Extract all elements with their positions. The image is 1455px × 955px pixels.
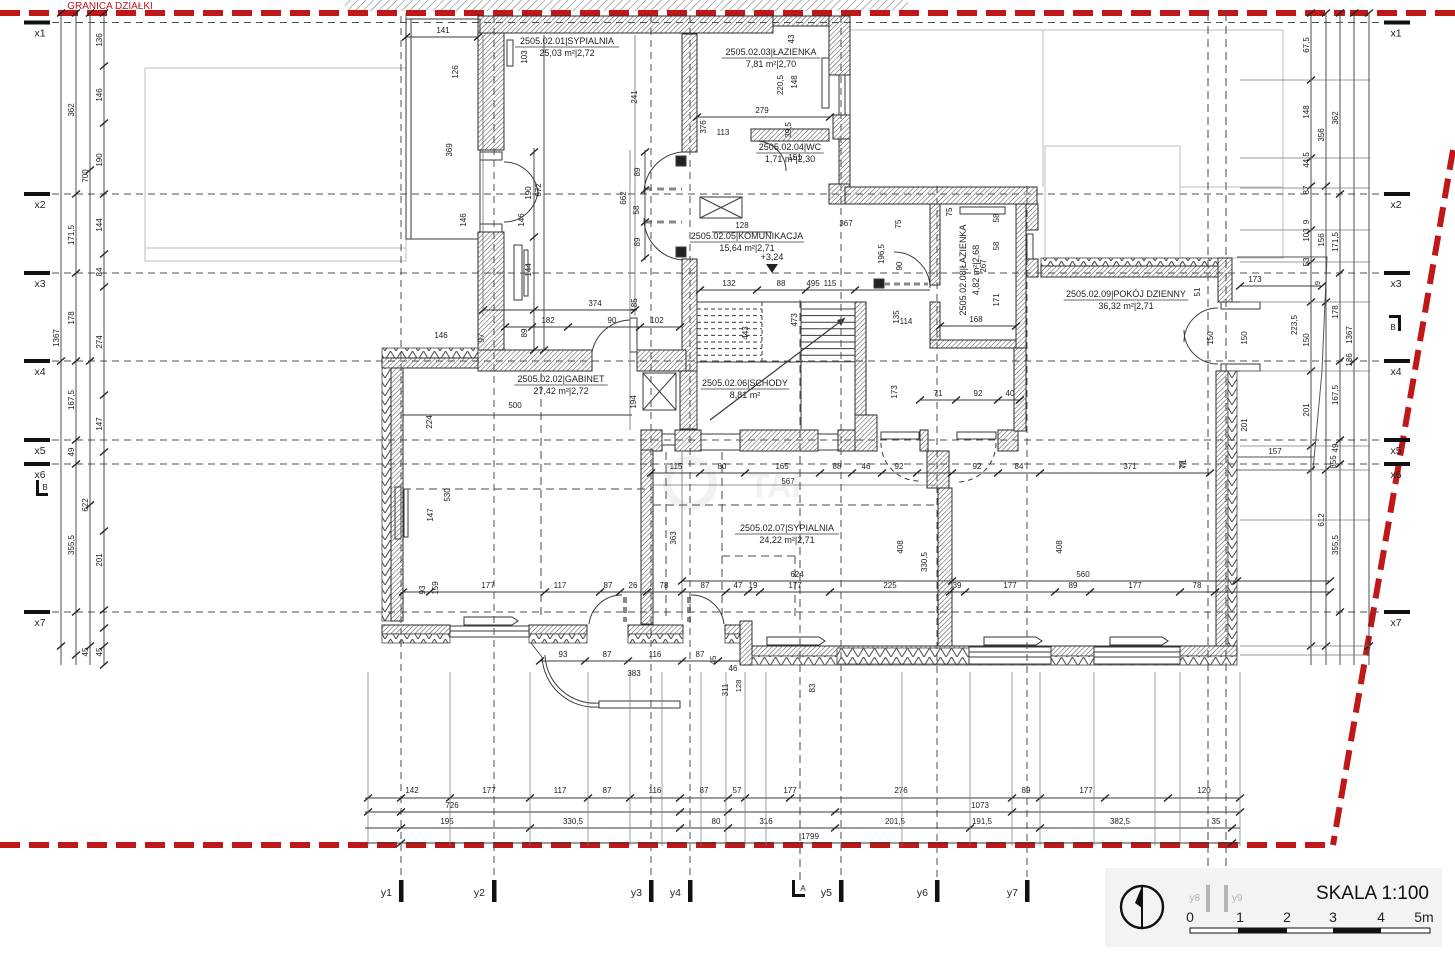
svg-text:49: 49: [1331, 443, 1340, 452]
svg-text:40: 40: [1006, 389, 1015, 398]
svg-text:19: 19: [749, 581, 758, 590]
svg-text:177: 177: [482, 786, 496, 795]
svg-text:201: 201: [1302, 403, 1311, 417]
svg-text:24,22 m²|2,71: 24,22 m²|2,71: [759, 535, 814, 545]
svg-text:x4: x4: [34, 366, 45, 378]
svg-text:4: 4: [1377, 909, 1385, 925]
north arrow: [1121, 886, 1163, 928]
neighbour building hatch above boundary: [345, 0, 908, 11]
svg-text:x3: x3: [34, 278, 45, 290]
svg-text:58: 58: [632, 205, 641, 214]
svg-text:330,5: 330,5: [563, 817, 584, 826]
svg-text:148: 148: [790, 75, 799, 89]
window in bottom wall west: [450, 625, 529, 627]
svg-text:146: 146: [517, 213, 526, 227]
windows in bottom wall east: [969, 647, 1051, 664]
svg-text:672: 672: [534, 183, 543, 197]
faint watermark: [667, 460, 713, 506]
svg-text:116: 116: [649, 786, 662, 795]
svg-text:726: 726: [445, 801, 459, 810]
svg-text:113: 113: [717, 128, 730, 137]
svg-text:274: 274: [95, 335, 104, 349]
svg-text:363: 363: [669, 531, 678, 545]
svg-text:58: 58: [992, 213, 1001, 222]
svg-text:178: 178: [67, 311, 76, 325]
svg-text:136: 136: [95, 33, 104, 47]
svg-text:x6: x6: [1390, 469, 1401, 481]
top exterior wall band: [478, 16, 773, 33]
svg-text:376: 376: [699, 120, 708, 134]
svg-text:y3: y3: [631, 887, 642, 899]
svg-text:115: 115: [670, 462, 683, 471]
svg-text:77: 77: [1178, 460, 1187, 469]
svg-text:x5: x5: [34, 445, 45, 457]
dims row y=473: [651, 472, 1210, 474]
wall between komunikacja and bathroom 03: [682, 34, 697, 152]
svg-text:5m: 5m: [1414, 909, 1433, 925]
svg-text:159: 159: [431, 581, 440, 595]
svg-text:89: 89: [1022, 786, 1031, 795]
svg-text:87: 87: [1302, 185, 1311, 194]
bathroom 08 south wall: [930, 340, 1019, 348]
svg-text:177: 177: [788, 581, 802, 590]
dims porch row: [540, 660, 740, 662]
svg-text:88: 88: [777, 279, 786, 288]
svg-text:2505.02.07|SYPIALNIA: 2505.02.07|SYPIALNIA: [740, 523, 834, 533]
entrance porch arc and step: [542, 657, 599, 707]
svg-text:224: 224: [425, 415, 434, 429]
svg-text:2: 2: [1283, 909, 1291, 925]
svg-text:141: 141: [436, 26, 450, 35]
svg-text:80: 80: [718, 462, 727, 471]
svg-text:75: 75: [894, 219, 903, 228]
section marker B right: [1398, 315, 1401, 331]
svg-text:241: 241: [630, 90, 639, 104]
balcony door opening leaves: [480, 152, 502, 160]
svg-text:4,82 m²|2,68: 4,82 m²|2,68: [971, 245, 981, 295]
svg-text:1367: 1367: [1345, 326, 1354, 344]
svg-text:408: 408: [896, 540, 905, 554]
svg-text:128: 128: [734, 680, 743, 693]
svg-text:87: 87: [604, 581, 613, 590]
south band below stairs with door openings: [641, 430, 662, 451]
svg-text:383: 383: [627, 669, 641, 678]
svg-text:46: 46: [862, 462, 871, 471]
svg-text:276: 276: [894, 786, 908, 795]
terrace sliding door leaves: [1221, 302, 1260, 309]
bottom exterior wall west part (hatch + insulation strips): [382, 625, 450, 634]
svg-text:190: 190: [95, 153, 104, 167]
svg-text:500: 500: [508, 401, 522, 410]
svg-text:201: 201: [1240, 418, 1249, 432]
svg-text:2505.02.02|GABINET: 2505.02.02|GABINET: [518, 374, 605, 384]
svg-text:90: 90: [608, 316, 617, 325]
dims terrace right: [1240, 285, 1322, 287]
svg-text:89: 89: [520, 328, 529, 337]
svg-text:148: 148: [1302, 105, 1311, 119]
dims bathroom 03: [697, 116, 830, 118]
bottom dimension rows: [365, 797, 1240, 799]
svg-text:93: 93: [418, 585, 427, 594]
right side extension lines: [1240, 79, 1370, 81]
svg-text:45: 45: [709, 655, 718, 664]
y8 y9 gray labels: [1206, 885, 1210, 912]
svg-text:171,5: 171,5: [67, 224, 76, 245]
svg-text:223,5: 223,5: [1290, 314, 1299, 335]
svg-text:1,71 m²|2,30: 1,71 m²|2,30: [765, 154, 815, 164]
svg-text:87: 87: [603, 650, 612, 659]
red property boundary GRANICA DZIALKI: [0, 10, 1345, 16]
window in east wall: [822, 58, 829, 108]
svg-text:190: 190: [524, 186, 533, 200]
svg-text:622: 622: [81, 498, 90, 512]
bedroom07 / living room dividing wall: [938, 488, 952, 646]
bay north wall band: [1041, 258, 1225, 266]
svg-text:1799: 1799: [801, 832, 819, 841]
svg-text:x6: x6: [34, 469, 45, 481]
svg-text:157: 157: [1268, 447, 1282, 456]
chimney shaft box: [700, 197, 742, 218]
svg-text:150: 150: [1206, 331, 1215, 345]
svg-text:177: 177: [1128, 581, 1142, 590]
svg-text:473: 473: [790, 313, 799, 327]
wall stub below doors: [927, 451, 949, 488]
wall below pocket doors: [682, 259, 697, 371]
svg-text:356: 356: [1317, 128, 1326, 142]
svg-text:7,81 m²|2,70: 7,81 m²|2,70: [746, 59, 796, 69]
svg-text:27,42 m²|2,72: 27,42 m²|2,72: [533, 386, 588, 396]
svg-text:156: 156: [1317, 233, 1326, 247]
svg-text:90: 90: [895, 261, 904, 270]
svg-text:196,5: 196,5: [877, 243, 886, 264]
svg-text:92: 92: [974, 389, 983, 398]
svg-text:167,5: 167,5: [1331, 384, 1340, 405]
dims row y=400: [920, 399, 1020, 401]
bathroom 08 west wall: [930, 204, 940, 285]
grid axis lines: [28, 22, 1402, 24]
svg-text:408: 408: [1055, 540, 1064, 554]
svg-text:43: 43: [787, 34, 796, 43]
svg-text:1073: 1073: [971, 801, 989, 810]
svg-text:355,5: 355,5: [67, 534, 76, 555]
svg-text:173: 173: [1248, 275, 1262, 284]
svg-text:x1: x1: [34, 28, 45, 40]
west wall of bedroom wing upper: [478, 33, 504, 150]
svg-text:B: B: [42, 483, 47, 492]
svg-text:25,03 m²|2,72: 25,03 m²|2,72: [539, 48, 594, 58]
svg-text:2505.02.04|WC: 2505.02.04|WC: [759, 142, 822, 152]
low window with cross pattern: [837, 648, 969, 664]
chimney box gabinet: [643, 373, 676, 410]
svg-text:9: 9: [1313, 281, 1322, 285]
dims stairs area: [700, 289, 930, 291]
svg-text:136: 136: [1345, 353, 1354, 367]
right dimension chains: [1310, 13, 1312, 665]
scale panel background: [1105, 868, 1442, 947]
svg-text:201: 201: [95, 553, 104, 567]
svg-text:45: 45: [81, 647, 90, 656]
svg-text:132: 132: [722, 279, 736, 288]
svg-text:165: 165: [775, 462, 789, 471]
svg-text:44,5: 44,5: [1302, 152, 1311, 168]
svg-text:y8: y8: [1189, 893, 1200, 904]
svg-text:367: 367: [839, 219, 853, 228]
svg-text:89: 89: [1069, 581, 1078, 590]
svg-text:92: 92: [895, 462, 904, 471]
svg-text:194: 194: [629, 395, 638, 409]
svg-text:567: 567: [781, 477, 795, 486]
svg-text:114: 114: [900, 317, 913, 326]
svg-text:369: 369: [445, 143, 454, 157]
svg-text:201,5: 201,5: [885, 817, 906, 826]
svg-text:47: 47: [734, 581, 743, 590]
svg-text:182: 182: [541, 316, 555, 325]
WC south wall band: [751, 129, 829, 141]
svg-text:78: 78: [660, 581, 669, 590]
svg-text:115: 115: [824, 279, 837, 288]
svg-text:75: 75: [945, 207, 954, 216]
svg-text:146: 146: [459, 213, 468, 227]
svg-text:9: 9: [1302, 219, 1311, 224]
svg-text:36,32 m²|2,71: 36,32 m²|2,71: [1098, 301, 1153, 311]
svg-text:y1: y1: [381, 887, 392, 899]
svg-text:2505.02.01|SYPIALNIA: 2505.02.01|SYPIALNIA: [520, 36, 614, 46]
svg-text:87: 87: [701, 581, 710, 590]
terrace outline right: [1237, 257, 1327, 470]
pocket doors in komunikacja: [676, 156, 686, 166]
svg-text:87: 87: [603, 786, 612, 795]
door to bedroom 07 (left): [881, 432, 919, 439]
svg-text:x2: x2: [1390, 199, 1401, 211]
svg-text:530: 530: [443, 488, 452, 502]
svg-text:1367: 1367: [52, 329, 61, 347]
svg-text:SKALA 1:100: SKALA 1:100: [1316, 883, 1429, 904]
svg-text:150: 150: [1240, 331, 1249, 345]
svg-text:177: 177: [1003, 581, 1017, 590]
svg-text:x5: x5: [1390, 445, 1401, 457]
svg-text:128: 128: [735, 221, 749, 230]
svg-text:67,5: 67,5: [1302, 37, 1311, 53]
east exterior wall lower: [1216, 371, 1228, 646]
svg-text:117: 117: [554, 786, 567, 795]
section line A: [799, 300, 801, 880]
north wall band of living area: [845, 187, 1037, 204]
bottom extension lines: [367, 672, 369, 846]
svg-text:117: 117: [554, 581, 567, 590]
bottom exterior wall east part: [752, 646, 1237, 656]
svg-text:89: 89: [633, 167, 642, 176]
svg-text:39,5: 39,5: [784, 122, 793, 138]
svg-text:330,5: 330,5: [920, 551, 929, 572]
svg-text:495: 495: [806, 279, 820, 288]
svg-text:173: 173: [890, 385, 899, 399]
door to living room (right): [957, 432, 996, 439]
svg-text:92: 92: [973, 462, 982, 471]
svg-text:177: 177: [481, 581, 495, 590]
svg-text:46: 46: [729, 664, 738, 673]
gabinet east wall upper: [680, 371, 697, 429]
svg-text:311: 311: [721, 683, 730, 696]
svg-text:+3,24: +3,24: [761, 252, 784, 262]
svg-text:A: A: [800, 884, 806, 893]
svg-text:167,5: 167,5: [67, 389, 76, 410]
svg-text:2505.02.03|ŁAZIENKA: 2505.02.03|ŁAZIENKA: [726, 47, 817, 57]
east exterior wall upper: [829, 16, 850, 75]
svg-text:51: 51: [1193, 287, 1202, 296]
svg-text:x7: x7: [1390, 617, 1401, 629]
svg-text:220,5: 220,5: [776, 74, 785, 95]
svg-text:89: 89: [633, 237, 642, 246]
svg-text:x3: x3: [1390, 278, 1401, 290]
svg-text:1: 1: [1236, 909, 1244, 925]
svg-text:191,5: 191,5: [972, 817, 993, 826]
svg-text:8,81 m²: 8,81 m²: [730, 390, 761, 400]
svg-text:168: 168: [969, 315, 983, 324]
svg-text:146: 146: [434, 331, 448, 340]
east wall next to terrace upper: [1218, 258, 1232, 302]
entrance double doors: [623, 597, 627, 622]
svg-text:362: 362: [1331, 111, 1340, 125]
svg-text:B: B: [1390, 323, 1395, 332]
svg-text:2505.02.06|SCHODY: 2505.02.06|SCHODY: [702, 378, 788, 388]
svg-text:49: 49: [67, 447, 76, 456]
radiators: [507, 40, 513, 66]
dims bathroom 08: [940, 325, 1016, 327]
svg-text:y2: y2: [474, 887, 485, 899]
svg-text:147: 147: [426, 508, 435, 522]
svg-text:3: 3: [1329, 909, 1337, 925]
svg-text:195: 195: [440, 817, 454, 826]
svg-text:y4: y4: [670, 887, 681, 899]
svg-text:147: 147: [95, 417, 104, 431]
svg-text:116: 116: [649, 650, 662, 659]
svg-text:2505.02.09|POKÓJ DZIENNY: 2505.02.09|POKÓJ DZIENNY: [1066, 289, 1186, 299]
svg-text:88: 88: [833, 462, 842, 471]
west balcony outline top-left: [406, 19, 480, 239]
west wall of bedroom wing lower: [478, 232, 504, 350]
svg-text:382,5: 382,5: [1110, 817, 1131, 826]
svg-text:78: 78: [1193, 581, 1202, 590]
step connector wall: [740, 621, 752, 665]
svg-text:84: 84: [95, 267, 104, 276]
left dimension chains: [60, 13, 62, 665]
svg-text:45: 45: [95, 647, 104, 656]
svg-text:71: 71: [934, 389, 943, 398]
svg-text:x4: x4: [1390, 366, 1401, 378]
stairs: [697, 301, 855, 303]
roof knee-wall dashed projection lines: [403, 488, 651, 490]
svg-text:y5: y5: [821, 887, 832, 899]
svg-text:178: 178: [1331, 305, 1340, 319]
svg-text:142: 142: [405, 786, 419, 795]
window sill marks: [767, 637, 825, 645]
west exterior wall of gabinet wing: [382, 368, 391, 621]
svg-text:120: 120: [1197, 786, 1211, 795]
roof outline right (light gray): [850, 29, 1283, 31]
svg-text:560: 560: [1076, 570, 1090, 579]
roof outline left (light gray): [145, 68, 406, 261]
svg-text:371: 371: [1123, 462, 1137, 471]
svg-text:662: 662: [619, 191, 628, 205]
gabinet north wall band: [478, 350, 592, 371]
svg-text:35: 35: [1212, 817, 1221, 826]
svg-text:177: 177: [783, 786, 797, 795]
svg-text:58: 58: [992, 241, 1001, 250]
svg-text:83: 83: [808, 683, 817, 692]
svg-text:150: 150: [1302, 333, 1311, 347]
svg-text:355,5: 355,5: [1331, 534, 1340, 555]
svg-text:225: 225: [883, 581, 897, 590]
svg-text:0: 0: [1186, 909, 1194, 925]
bedroom07 west wall: [641, 450, 653, 624]
svg-text:855: 855: [1329, 455, 1338, 469]
svg-text:103: 103: [520, 50, 529, 64]
svg-text:93: 93: [559, 650, 568, 659]
svg-text:y7: y7: [1007, 887, 1018, 899]
vertical axis lines y1-y9: [400, 16, 402, 880]
svg-text:126: 126: [451, 65, 460, 79]
svg-text:y9: y9: [1232, 893, 1243, 904]
svg-text:y6: y6: [917, 887, 928, 899]
svg-text:80: 80: [712, 817, 721, 826]
section marker B left: [36, 480, 39, 496]
svg-text:x7: x7: [34, 617, 45, 629]
svg-text:146: 146: [95, 88, 104, 102]
svg-text:144: 144: [524, 263, 533, 277]
svg-text:2505.02.08|ŁAZIENKA: 2505.02.08|ŁAZIENKA: [958, 225, 968, 316]
svg-text:57: 57: [733, 786, 742, 795]
svg-text:177: 177: [1079, 786, 1093, 795]
living room west wall: [1016, 204, 1026, 348]
svg-text:171: 171: [992, 293, 1001, 307]
interior dims top-left: [406, 36, 478, 38]
svg-text:374: 374: [588, 299, 602, 308]
wc door arc: [756, 141, 786, 171]
svg-text:84: 84: [1015, 462, 1024, 471]
svg-text:97: 97: [477, 333, 486, 342]
svg-text:443: 443: [741, 326, 750, 340]
svg-text:144: 144: [95, 218, 104, 232]
svg-text:279: 279: [755, 106, 769, 115]
svg-text:x1: x1: [1390, 28, 1401, 40]
NE corner wall of living room: [1026, 204, 1038, 230]
stairs wall bottom column: [855, 415, 877, 451]
svg-text:102: 102: [650, 316, 664, 325]
svg-text:362: 362: [67, 103, 76, 117]
svg-text:2505.02.05|KOMUNIKACJA: 2505.02.05|KOMUNIKACJA: [691, 231, 803, 241]
y8 y9 lines: [1207, 13, 1209, 872]
svg-text:26: 26: [629, 581, 638, 590]
stairs enclosure east wall: [855, 302, 866, 429]
svg-text:87: 87: [696, 650, 705, 659]
extension lines sypialnia01: [482, 35, 484, 316]
svg-text:171,5: 171,5: [1331, 231, 1340, 252]
dims row y=592: [403, 591, 1330, 593]
svg-text:x2: x2: [34, 199, 45, 211]
gabinet door leaf and arc: [630, 318, 637, 352]
svg-text:700: 700: [81, 169, 90, 183]
svg-text:624: 624: [790, 570, 804, 579]
